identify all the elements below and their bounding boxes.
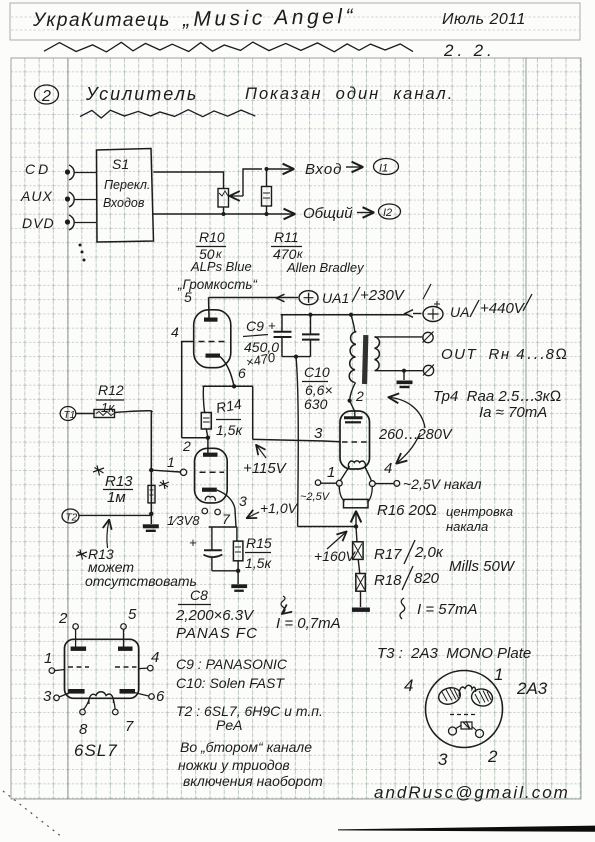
- label star R13: [93, 466, 133, 507]
- V1b grid dashes: [200, 471, 225, 473]
- resistor R12 body horizontal: [76, 410, 115, 418]
- hum pot R16 body: [344, 499, 369, 507]
- svg-text:7: 7: [125, 718, 134, 735]
- svg-text:UA1: UA1: [322, 290, 349, 306]
- 6SL7 pin2 circle and lead: [73, 624, 79, 647]
- V1b heater pin circles: [202, 508, 220, 515]
- wire R11 top: [266, 169, 268, 187]
- svg-text:Усилитель: Усилитель: [85, 84, 198, 104]
- V1b grid pin circle: [180, 469, 186, 475]
- terminal Sh2 oval: [379, 204, 401, 219]
- V1b heater arcs: [205, 496, 215, 500]
- svg-text:DVD: DVD: [22, 215, 55, 231]
- transformer primary top lead: [351, 315, 355, 332]
- transformer primary bottom lead: [350, 382, 356, 411]
- long wire caps to cathode node: [296, 357, 298, 527]
- svg-text:6: 6: [238, 365, 246, 381]
- margin line right: [525, 58, 527, 799]
- svg-text:820: 820: [414, 570, 440, 587]
- label 2.5V nakal: [403, 476, 482, 492]
- ground R18: [352, 591, 370, 612]
- node rail V1a cathode to R14 top: [202, 385, 252, 387]
- circled 2 section marker: [35, 85, 59, 105]
- wire R10 bottom to bus: [223, 207, 225, 214]
- arrow obschiy to terminal: [357, 212, 372, 214]
- 440V bus: [281, 310, 422, 318]
- svg-text:C8: C8: [190, 587, 208, 603]
- cathode return rail: [298, 526, 356, 528]
- svg-text:Во „бтором“ канале: Во „бтором“ канале: [180, 739, 312, 755]
- label I=57mA: [417, 601, 477, 618]
- svg-text:2,200×6.3V: 2,200×6.3V: [175, 607, 255, 624]
- C9a bottom lead: [281, 337, 283, 357]
- svg-text:2: 2: [182, 438, 191, 454]
- svg-text:4: 4: [384, 460, 392, 477]
- svg-text:1: 1: [44, 650, 52, 667]
- svg-text:R10: R10: [199, 229, 225, 245]
- svg-text:C9: C9: [246, 318, 264, 334]
- svg-text:260․․․280V: 260․․․280V: [378, 427, 453, 443]
- 2A3 filament arcs: [348, 461, 365, 468]
- wire V1a cathode curve to node6: [220, 357, 234, 387]
- resistor R15 body: [233, 541, 243, 561]
- rail grid V1a to plate V1b: [182, 437, 208, 439]
- pin label 2 of 2A3: [355, 388, 364, 404]
- V1a cathode: [206, 354, 221, 358]
- svg-text:7: 7: [222, 511, 231, 527]
- label R15: [245, 535, 272, 571]
- pin label 1 V1b: [167, 454, 175, 470]
- R10 wiper arrow: [231, 195, 243, 197]
- note C9 panasonic: [176, 656, 288, 672]
- transformer core: [362, 335, 368, 384]
- svg-text:T2 : 6SL7, 6Н9С и т.п.: T2 : 6SL7, 6Н9С и т.п.: [176, 703, 323, 719]
- svg-text:Показан один канал.: Показан один канал.: [245, 85, 454, 103]
- svg-text:PANAS FC: PANAS FC: [176, 625, 258, 642]
- junction transformer primary bus: [349, 313, 353, 317]
- wire R12 to grid node: [115, 411, 153, 413]
- resistor R14 body: [201, 413, 211, 430]
- wire S1 top output to R10 top: [154, 172, 224, 189]
- note vklyucheniya naoborot: [183, 773, 323, 789]
- label R10 brand: [190, 259, 252, 274]
- svg-text:Allen Bradley: Allen Bradley: [286, 260, 365, 275]
- svg-text:2: 2: [41, 88, 51, 105]
- bottom rail C8 R15: [212, 570, 238, 572]
- label OUT Rn 4-8 ohm: [441, 346, 569, 363]
- svg-text:1: 1: [327, 464, 335, 481]
- capacitor C9a positive mark: [268, 318, 276, 333]
- svg-text:4: 4: [171, 324, 179, 340]
- note T3 2A3 monoplate: [377, 645, 531, 662]
- junction primary bottom: [348, 399, 352, 403]
- label AUX: [20, 188, 53, 204]
- 6SL7 pin1 circle lead: [49, 668, 64, 674]
- wire T2 to node: [79, 514, 151, 516]
- 6SL7 pin6 circle lead: [134, 693, 154, 700]
- 2A3 name label: [516, 679, 548, 698]
- 6SL7 grid a dashes: [68, 666, 89, 668]
- svg-text:2,0к: 2,0к: [414, 544, 444, 561]
- filament left stub wire: [321, 482, 337, 484]
- 2A3 base anode b hatched: [470, 687, 494, 707]
- V1b plate: [203, 453, 218, 457]
- label nakala: [446, 519, 488, 534]
- R16 end leads: [339, 486, 372, 502]
- note T2 tubes: [176, 703, 323, 719]
- label C8: [175, 587, 258, 642]
- note RCA: [216, 717, 242, 733]
- 2A3 base pin circles: [449, 725, 484, 738]
- label vhod: [305, 161, 342, 178]
- svg-text:T2: T2: [66, 513, 78, 524]
- wire right branch down to 115V line: [252, 386, 254, 439]
- 2A3 pin label 3: [438, 750, 448, 769]
- triode V1a envelope: [194, 310, 231, 368]
- C8 top lead: [211, 527, 213, 550]
- svg-text:1: 1: [494, 665, 503, 684]
- 2A3 base circle: [426, 671, 503, 748]
- svg-text:6: 6: [156, 688, 165, 705]
- svg-text:+230V: +230V: [360, 287, 406, 304]
- label +160V with arrow: [314, 533, 357, 565]
- label R10 value: [196, 229, 226, 262]
- svg-text:C9 : PANASONIC: C9 : PANASONIC: [176, 656, 288, 672]
- label tsentrovka: [446, 504, 513, 519]
- wire CD to S1: [74, 172, 96, 174]
- wire AUX to S1: [74, 199, 96, 201]
- transformer T4 primary winding: [349, 331, 356, 382]
- connector jack CD: [65, 165, 74, 180]
- C9b plates: [302, 334, 320, 339]
- S1 text perekl: [104, 178, 150, 192]
- svg-text:Iа ≈ 70mA: Iа ≈ 70mA: [479, 404, 547, 421]
- label +1,0V with arrow: [248, 500, 299, 518]
- svg-text:Входов: Входов: [103, 196, 145, 210]
- curved arrow to plate: [390, 398, 425, 429]
- svg-text:Mills 50W: Mills 50W: [449, 558, 516, 575]
- svg-text:T1: T1: [64, 410, 76, 421]
- 2A3 base getter scribble: [461, 721, 472, 729]
- R17 R18 link: [358, 559, 360, 573]
- pin label 4: [171, 324, 179, 340]
- svg-text:2: 2: [355, 388, 364, 404]
- C8 positive mark: [189, 535, 197, 550]
- note C10 solen: [176, 675, 285, 691]
- page number 2.2.: [443, 41, 496, 60]
- cap bottom rail: [282, 356, 311, 358]
- R14 top lead: [203, 386, 204, 412]
- resistor R11 body: [262, 187, 272, 207]
- margin line left: [67, 58, 69, 799]
- label R17 value: [374, 540, 444, 564]
- wire V1b cathode to node: [217, 490, 236, 527]
- svg-text:R18: R18: [374, 572, 402, 589]
- curved arrow to pin4: [398, 433, 421, 463]
- svg-text:2: 2: [487, 747, 498, 766]
- svg-text:C10: C10: [304, 364, 330, 380]
- wire down to V1b plate: [207, 438, 209, 453]
- terminal T2 circle: [62, 509, 79, 524]
- current bracket squiggle: [400, 598, 405, 619]
- wavy scribble under header: [44, 42, 413, 52]
- svg-text:R12: R12: [98, 382, 124, 398]
- resistor R13 body: [148, 485, 155, 503]
- C9b top lead: [310, 315, 312, 335]
- wire R11 bottom to bus: [266, 206, 268, 214]
- svg-text:R16 20Ω: R16 20Ω: [377, 502, 437, 519]
- capacitor C8 plates: [204, 550, 223, 557]
- label obschiy: [303, 205, 353, 222]
- 2A3 grid dashes: [342, 441, 368, 443]
- svg-text:C10: Solen FAST: C10: Solen FAST: [176, 675, 285, 691]
- svg-text:3: 3: [43, 688, 52, 705]
- switch S1 box: [97, 149, 154, 243]
- 6SL7 pin7 label: [125, 718, 134, 735]
- 2A3 plate bars: [344, 412, 363, 423]
- terminal T1 circle: [60, 407, 76, 422]
- svg-text:+: +: [189, 535, 197, 550]
- secondary bottom wire to OUT: [375, 370, 423, 372]
- 2A3 base dashes: [450, 714, 478, 716]
- pin label 5 tube1: [184, 289, 192, 305]
- svg-text:+160V: +160V: [314, 548, 357, 564]
- 6SL7 pin8 label: [79, 721, 88, 738]
- svg-text:+115V: +115V: [243, 460, 288, 477]
- junction T2 node: [149, 512, 153, 516]
- S1 designator: [112, 156, 129, 172]
- arrow r13 note: [107, 521, 109, 548]
- 2A3 pin label 2: [487, 747, 498, 766]
- 6SL7 pin4 circle lead: [139, 665, 153, 671]
- 6SL7 pin6 label: [156, 688, 165, 705]
- svg-text:Вход: Вход: [305, 161, 342, 178]
- svg-text:2. 2.: 2. 2.: [443, 41, 496, 60]
- svg-text:~2,5V: ~2,5V: [300, 491, 331, 503]
- 6SL7 pin5 circle and lead: [121, 624, 127, 647]
- svg-text:1: 1: [167, 454, 175, 470]
- filament right terminal: [394, 481, 400, 487]
- pin label 1 2A3: [327, 464, 335, 481]
- svg-text:+440V: +440V: [480, 300, 526, 317]
- svg-text:3: 3: [314, 425, 323, 442]
- label Tr4 Raa: [433, 388, 561, 405]
- svg-text:andRusc@gmail.com: andRusc@gmail.com: [374, 783, 570, 802]
- svg-text:R17: R17: [374, 546, 402, 563]
- junction R10 bottom: [222, 212, 226, 216]
- note star R13: [76, 546, 114, 562]
- 6SL7 cathode a: [68, 689, 85, 694]
- note vo vtorom kanale: [180, 739, 312, 755]
- svg-text:включения наоборот: включения наоборот: [183, 773, 323, 789]
- 6SL7 pin8 circle: [80, 709, 86, 715]
- star mark near R13: [159, 480, 169, 489]
- svg-text:5: 5: [128, 606, 137, 623]
- label gromkost: [177, 277, 258, 292]
- ground cathode network: [231, 571, 247, 592]
- email signature: [374, 783, 570, 802]
- svg-text:1∕3V8: 1∕3V8: [167, 513, 200, 528]
- svg-text:8: 8: [79, 721, 88, 738]
- pin label 3 V1b: [239, 493, 247, 509]
- junction secondary bottom: [402, 369, 406, 373]
- wire grid V1a to left and down: [182, 342, 194, 438]
- svg-text:ножки у триодов: ножки у триодов: [178, 757, 290, 773]
- svg-text:центровка: центровка: [446, 504, 513, 519]
- label UA 440V: [450, 294, 532, 320]
- svg-text:1,5к: 1,5к: [245, 555, 272, 571]
- svg-text:ALPs Blue: ALPs Blue: [190, 259, 252, 274]
- R17 top lead: [356, 527, 357, 542]
- svg-text:Июль 2011: Июль 2011: [442, 11, 526, 28]
- label +115V with arrow: [243, 446, 288, 477]
- junction R14 bottom: [206, 436, 210, 440]
- 2A3 base heater m: [459, 685, 475, 696]
- squiggle current marker: [281, 596, 285, 613]
- title date: [442, 11, 526, 28]
- label Mills 50W: [449, 558, 516, 575]
- R15 top lead: [236, 527, 238, 541]
- ellipsis dots below DVD: [79, 244, 86, 262]
- svg-text:3: 3: [239, 493, 247, 509]
- C9b bottom lead: [310, 340, 312, 357]
- label R14: [215, 396, 244, 438]
- filament right stub wire: [375, 483, 394, 485]
- 2A3 base anode a hatched: [437, 685, 462, 706]
- junction R11 bottom: [265, 212, 269, 216]
- circled plus UA1: [299, 291, 318, 305]
- wire 115V line to 2A3 grid: [253, 439, 340, 441]
- junction R15 bottom: [236, 569, 240, 573]
- terminal Sh1 oval: [374, 159, 399, 175]
- label CD: [25, 161, 51, 177]
- svg-text:Перекл.: Перекл.: [104, 178, 150, 192]
- svg-text:5: 5: [184, 289, 192, 305]
- svg-text:S1: S1: [112, 156, 129, 172]
- junction cathode return: [354, 524, 358, 528]
- label R11 value: [271, 229, 304, 262]
- pin label 4 2A3: [384, 460, 392, 477]
- svg-text:6SL7: 6SL7: [74, 741, 118, 760]
- pin label 7 V1b: [222, 511, 231, 527]
- svg-text:отсутствовать: отсутствовать: [85, 573, 197, 589]
- wire input line to vhod arrow: [267, 168, 293, 170]
- connector jack AUX: [65, 192, 74, 207]
- svg-text:I = 57mA: I = 57mA: [417, 601, 477, 618]
- scribble under usilitel: [80, 110, 255, 118]
- svg-text:UA: UA: [450, 304, 469, 320]
- resistor R17 body: [353, 542, 364, 560]
- junction grid node: [149, 468, 153, 472]
- label R18 value: [374, 566, 440, 590]
- junction R11 top: [265, 167, 269, 171]
- V1a plate riser wire: [208, 298, 211, 318]
- R16 wiper arrow: [355, 513, 357, 527]
- svg-text:+1,0V: +1,0V: [260, 500, 299, 516]
- 6SL7 heater legs: [84, 700, 116, 709]
- svg-text:2А3: 2А3: [516, 679, 548, 698]
- 6SL7 grid b dashes: [115, 666, 137, 668]
- svg-text:R13: R13: [105, 473, 133, 490]
- label DVD: [22, 215, 55, 231]
- wire grid V1b to R13 node: [151, 470, 181, 472]
- label R12: [96, 382, 124, 415]
- svg-text:~2,5V накал: ~2,5V накал: [403, 476, 482, 492]
- cathode rail V1b: [209, 526, 237, 528]
- filament left terminal: [315, 480, 320, 485]
- 6SL7 name: [74, 741, 118, 760]
- pin label 2 V1b: [182, 438, 191, 454]
- svg-text:AUX: AUX: [20, 188, 53, 204]
- label 260-280V: [378, 427, 453, 443]
- junction cap rail: [294, 355, 298, 359]
- S1 text vhodov: [103, 196, 145, 210]
- ground secondary: [397, 371, 413, 388]
- svg-text:I1: I1: [379, 163, 388, 175]
- wire R10 wiper up to input line: [243, 169, 262, 196]
- label Ia 70mA: [479, 404, 547, 421]
- label R16: [377, 502, 437, 519]
- label 2.5V left: [300, 491, 331, 503]
- 6SL7 cathode b: [120, 689, 136, 694]
- svg-text:„Music Angel“: „Music Angel“: [182, 5, 356, 31]
- resistor R18 body: [356, 574, 366, 592]
- 6SL7 plate b: [118, 647, 133, 651]
- svg-text:1м: 1м: [107, 489, 126, 506]
- note nozhki u triodov: [178, 757, 290, 773]
- svg-text:T3 : 2A3 MONO Plate: T3 : 2A3 MONO Plate: [377, 645, 531, 662]
- svg-text:накала: накала: [446, 519, 488, 534]
- ground input node: [143, 514, 159, 532]
- title text music angel: [182, 5, 356, 31]
- 6SL7 pin7 circle: [113, 709, 119, 715]
- svg-text:OUT Rн 4․․․8Ω: OUT Rн 4․․․8Ω: [441, 346, 569, 363]
- 6SL7 pin3 circle lead: [54, 693, 70, 701]
- secondary top wire to OUT: [375, 336, 423, 338]
- 6SL7 pinout label pin2: [58, 610, 68, 627]
- arrow vhod to terminal: [346, 166, 361, 168]
- heading pokazan odin kanal: [245, 85, 454, 103]
- 6SL7 pinout label pin5: [128, 606, 137, 623]
- OUT terminal 1: [423, 332, 434, 343]
- label C10: [302, 364, 333, 412]
- R15 bottom lead: [237, 561, 239, 571]
- 230V feed line with arrowhead: [209, 294, 299, 302]
- svg-text:R11: R11: [274, 229, 299, 245]
- svg-text:4: 4: [151, 649, 159, 666]
- label half 6SL7: [167, 513, 200, 528]
- title strip border: [10, 3, 580, 40]
- svg-text:CD: CD: [25, 161, 51, 177]
- V1a plate: [204, 318, 218, 322]
- svg-text:PeA: PeA: [216, 717, 242, 733]
- heading usilitel: [85, 84, 198, 104]
- pin label 6: [238, 365, 246, 381]
- potentiometer R10 body: [218, 189, 229, 208]
- V1a grid dashes: [199, 341, 227, 343]
- transformer secondary winding: [375, 337, 380, 371]
- C8 bottom lead: [211, 557, 213, 571]
- 6SL7 plate a: [71, 647, 87, 651]
- connector jack DVD: [65, 215, 74, 230]
- svg-text:3: 3: [438, 750, 448, 769]
- junction node6: [232, 384, 236, 388]
- power triode 2A3 envelope: [340, 411, 370, 469]
- svg-text:R15: R15: [246, 535, 272, 551]
- circled plus UA: [423, 301, 443, 322]
- label C9: [243, 318, 279, 370]
- scan wedge bottom bar: [338, 826, 595, 832]
